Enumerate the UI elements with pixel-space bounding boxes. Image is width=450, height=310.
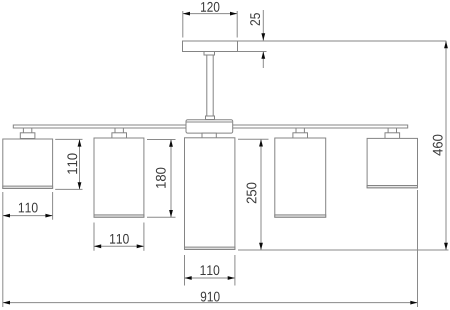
- lamp 1 stem: [23, 128, 31, 133]
- lamp 2 stem: [115, 128, 123, 133]
- label 110 a: [19, 203, 38, 213]
- dim 460 line: [445, 41, 447, 250]
- arrow 120 left: [183, 12, 190, 16]
- dim 110 c line: [185, 277, 235, 279]
- arrow 110 b left: [94, 244, 101, 248]
- shade S4: [275, 138, 326, 217]
- dim 250 top extension line: [238, 138, 269, 140]
- shade S5: [367, 138, 417, 187]
- shade S2: [94, 138, 144, 217]
- arrow 25 up: [261, 52, 265, 59]
- hub: [186, 120, 233, 133]
- shade S2 bottom band: [94, 215, 144, 217]
- label 110 b: [110, 234, 129, 244]
- dim 110 a extension lines: [2, 192, 4, 307]
- label 250: [247, 183, 257, 204]
- dim 110 c extension lines: [184, 255, 186, 286]
- label 910: [201, 292, 220, 302]
- arrow 110 a left: [3, 214, 10, 218]
- dim 120 extension lines: [182, 11, 184, 38]
- dim 110 a line: [3, 215, 53, 217]
- arrow 110 b right: [137, 244, 144, 248]
- arrow 910 left: [3, 301, 10, 305]
- label 460: [433, 135, 443, 156]
- arrow 120 right: [230, 12, 237, 16]
- stem: [207, 55, 213, 116]
- lamp 1 cup: [20, 133, 35, 139]
- lamp 4 cup: [293, 133, 308, 139]
- canopy: [183, 41, 238, 52]
- label 25: [250, 13, 260, 25]
- canopy top extension line (460 ref): [238, 40, 447, 42]
- dim 110 b extension lines: [93, 223, 95, 251]
- shade S1 bottom band: [3, 186, 53, 188]
- arrow 910 right: [410, 301, 417, 305]
- dim 910 line: [3, 302, 418, 304]
- dim 110 b line: [94, 245, 144, 247]
- shade S1: [3, 139, 53, 188]
- arrow 460 up: [444, 41, 448, 48]
- dim 910 right extension line: [417, 190, 419, 307]
- dim 25 lower line: [262, 52, 264, 69]
- label 120: [201, 2, 219, 12]
- dim 110 v extension lines: [55, 138, 82, 140]
- label 180: [156, 168, 166, 188]
- label 110 c: [201, 265, 220, 275]
- dim 250 line: [260, 139, 262, 250]
- arrow 180 down: [169, 210, 173, 217]
- arrow 180 up: [169, 140, 173, 147]
- bottom reference line: [238, 249, 449, 251]
- arrow 110 v down: [78, 182, 82, 189]
- lamp 4 stem: [296, 128, 304, 133]
- shade S4 bottom band: [275, 215, 326, 217]
- arrow 110 a right: [45, 214, 52, 218]
- dim 120 line: [183, 13, 237, 15]
- dim 180 extension lines: [147, 139, 176, 141]
- lamp 5 cup: [385, 133, 400, 139]
- label 110 v: [67, 153, 77, 173]
- arrow 110 v up: [78, 139, 82, 146]
- arrow 25 down: [261, 33, 265, 40]
- shade S5 bottom band: [367, 186, 417, 188]
- lamp 5 stem: [388, 128, 396, 133]
- lamp 2 cup: [112, 133, 127, 139]
- arrow 110 c right: [228, 276, 235, 280]
- arrow 250 down: [259, 243, 263, 250]
- dim 110 v line: [79, 139, 81, 189]
- canopy collar: [204, 52, 215, 56]
- arrow 110 c left: [185, 276, 192, 280]
- arrow 460 down: [444, 243, 448, 250]
- canopy bottom extension line: [238, 51, 267, 53]
- lamp 3 neck: [202, 133, 216, 138]
- hub inner line: [187, 121, 233, 123]
- shade S3: [185, 138, 235, 250]
- shade S3 bottom band: [185, 247, 235, 249]
- dim 25 upper line: [262, 10, 264, 41]
- arrow 250 up: [259, 139, 263, 146]
- dim 180 line: [170, 140, 172, 218]
- stem flange: [206, 116, 215, 120]
- wire bar: [13, 125, 407, 128]
